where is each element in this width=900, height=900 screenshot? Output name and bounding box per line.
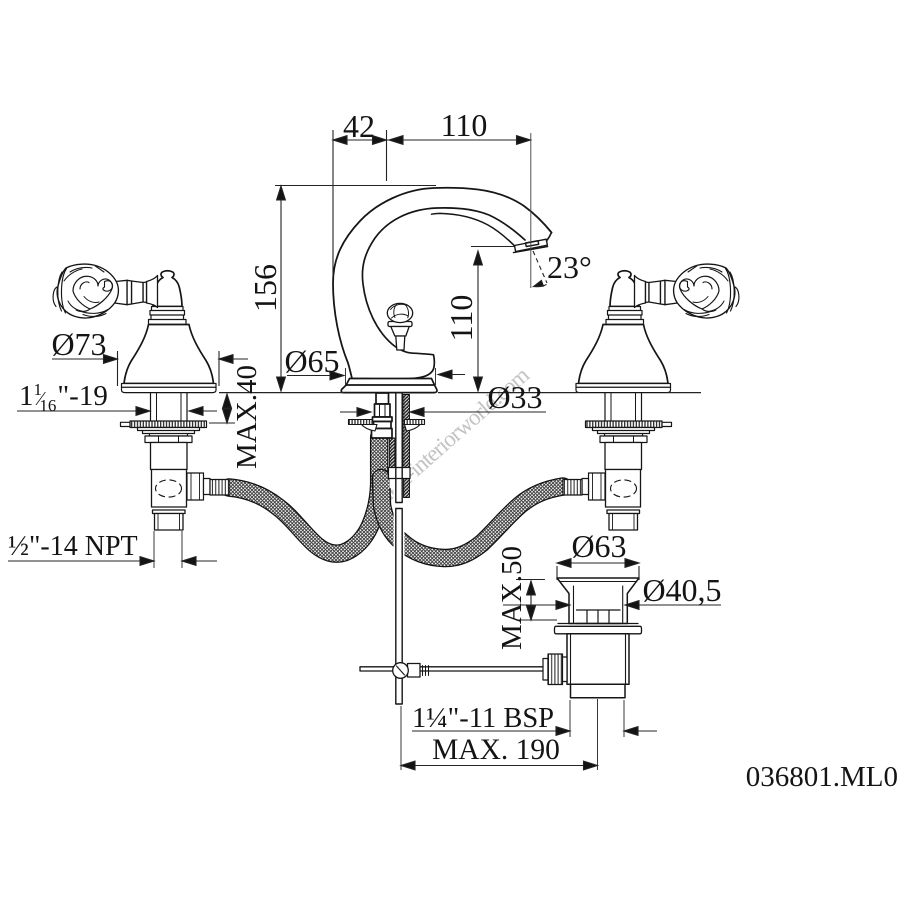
svg-text:23°: 23° bbox=[547, 249, 592, 285]
dim MAX.50 bbox=[530, 581, 532, 620]
svg-text:MAX.50: MAX.50 bbox=[496, 546, 528, 650]
svg-text:110: 110 bbox=[443, 295, 479, 342]
handle stem left bbox=[115, 276, 158, 308]
dim MAX.40 bbox=[226, 394, 228, 423]
valve stem and flange right bbox=[586, 393, 672, 443]
bell escutcheon left bbox=[122, 271, 217, 393]
dim diam33 bbox=[340, 411, 371, 413]
right valve bbox=[563, 264, 739, 530]
bell escutcheon right bbox=[576, 271, 671, 393]
valve stem and flange left bbox=[121, 393, 207, 443]
svg-text:½"-14 NPT: ½"-14 NPT bbox=[8, 531, 138, 562]
dim 1-1/16-19 bbox=[17, 410, 150, 412]
dim 1/2-14NPT bbox=[8, 560, 154, 562]
svg-text:MAX.40: MAX.40 bbox=[231, 365, 263, 469]
horizontal linkage rod bbox=[360, 663, 543, 679]
pop-up rod corridor (white clearance for lift rod over hoses) bbox=[394, 486, 405, 708]
handle stem right bbox=[635, 276, 678, 308]
waste flange bbox=[555, 624, 642, 634]
spout inner lip line bbox=[432, 213, 515, 245]
svg-text:Ø73: Ø73 bbox=[51, 326, 106, 362]
valve body left bbox=[151, 443, 188, 531]
pop-up rod sleeve assembly behind mixer bbox=[389, 395, 411, 498]
crystal handle left bbox=[53, 264, 118, 318]
svg-text:036801.ML0: 036801.ML0 bbox=[746, 761, 898, 793]
aerator bbox=[514, 239, 548, 252]
watermark bbox=[370, 362, 534, 511]
outlet connector left bbox=[187, 473, 229, 500]
mixer mounting shank and crimp under base bbox=[372, 393, 393, 438]
drain pop-up waste bbox=[360, 578, 642, 698]
svg-text:156: 156 bbox=[247, 264, 283, 312]
waste body bbox=[567, 634, 629, 698]
dim MAX.190 bbox=[401, 765, 598, 767]
mixer deck flange wings with hatching bbox=[349, 420, 425, 432]
spout outer curve bbox=[333, 188, 552, 379]
dim diam73 bbox=[52, 358, 118, 360]
svg-text:Ø63: Ø63 bbox=[571, 528, 626, 564]
waste flare cup bbox=[557, 578, 639, 624]
dim 23 degrees bbox=[533, 251, 547, 283]
hose right (flex inlet hose from right valve to mixer) bbox=[381, 478, 563, 558]
dim 110 vertical bbox=[477, 251, 479, 391]
svg-text:11⁄16"-19: 11⁄16"-19 bbox=[19, 380, 108, 415]
svg-text:Ø33: Ø33 bbox=[487, 379, 542, 415]
spout tip end face bbox=[546, 233, 551, 242]
valve body right bbox=[605, 443, 642, 531]
dim diam65 bbox=[287, 375, 344, 377]
dim BSP bbox=[412, 730, 556, 732]
svg-text:42: 42 bbox=[343, 108, 375, 144]
left valve bbox=[53, 264, 229, 530]
deck lines bbox=[219, 392, 701, 394]
crystal handle right bbox=[674, 264, 739, 318]
spout middle contour and bowl bbox=[352, 208, 525, 379]
dim 156 bbox=[280, 186, 282, 391]
dim diam63 bbox=[557, 562, 639, 564]
mixer base plinth bbox=[341, 379, 437, 393]
inlet connector right bbox=[563, 473, 605, 500]
dim diam40,5 bbox=[503, 604, 556, 606]
svg-text:1¼"-11 BSP: 1¼"-11 BSP bbox=[412, 703, 554, 734]
svg-text:Ø40,5: Ø40,5 bbox=[642, 572, 721, 608]
svg-text:MAX. 190: MAX. 190 bbox=[432, 734, 560, 766]
ball-joint knurled nut bbox=[543, 654, 567, 685]
hose left (flex inlet hose from left valve to mixer) bbox=[229, 437, 379, 554]
pop-up knob on spout (crystal) bbox=[387, 303, 412, 350]
dim 42/110 top bbox=[333, 139, 531, 141]
svg-text:Ø65: Ø65 bbox=[284, 343, 339, 379]
svg-text:110: 110 bbox=[441, 107, 488, 143]
pop-up lift rod bbox=[396, 393, 402, 704]
